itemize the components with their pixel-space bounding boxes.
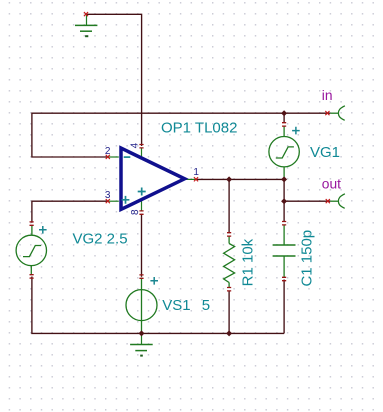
junction node output / R1 top xyxy=(226,176,232,182)
capacitor C1 xyxy=(273,225,296,277)
out macro pin connector xyxy=(330,194,345,209)
wire out net xyxy=(284,200,330,202)
VG2 source xyxy=(16,226,46,275)
svg-text:VG2 2.5: VG2 2.5 xyxy=(73,230,128,247)
terminal marks R1 bottom xyxy=(227,288,231,291)
op-amp OP1 triangle xyxy=(121,148,185,209)
pin-end mark in port xyxy=(325,111,329,115)
wire pin8 to VS1 xyxy=(141,214,143,277)
terminal marks VG2 top xyxy=(30,222,34,225)
terminal marks C1 top xyxy=(282,222,286,225)
junction ground rail / VS1 bottom xyxy=(139,330,145,336)
wire top ground to pin4 xyxy=(86,14,142,146)
terminal marks VS1 top xyxy=(139,275,143,278)
in macro pin connector xyxy=(330,106,345,121)
svg-text:4: 4 xyxy=(129,142,140,148)
terminal marks VG1 top xyxy=(282,123,286,126)
junction node in / VG1 top xyxy=(281,110,287,116)
svg-text:C1 150p: C1 150p xyxy=(298,230,315,287)
svg-text:VS1: VS1 xyxy=(162,297,190,314)
VG2 plus xyxy=(39,226,47,234)
terminal marks OP1 pin 4 xyxy=(139,145,143,148)
junction ground rail / R1 bottom xyxy=(226,330,232,336)
pin-end mark GND1 top xyxy=(84,12,88,16)
VS1 plus xyxy=(150,277,158,285)
ground bottom xyxy=(130,333,153,355)
terminal marks OP1 pin 8 xyxy=(139,211,143,214)
wire pin3 to VG2 xyxy=(32,201,108,223)
ground top xyxy=(75,14,97,36)
VS1 source xyxy=(126,278,157,334)
VG1 source xyxy=(269,127,299,180)
svg-text:OP1 TL082: OP1 TL082 xyxy=(161,120,237,137)
VG1 plus xyxy=(292,127,300,135)
svg-text:5: 5 xyxy=(202,297,210,314)
op-amp plus mark supply xyxy=(138,188,146,196)
wire R1 bottom lead xyxy=(228,291,230,334)
op-amp OP1 pin 1 stub xyxy=(184,178,197,180)
svg-text:R1 10k: R1 10k xyxy=(239,238,256,286)
terminal marks C1 bottom xyxy=(282,277,286,280)
terminal marks VG2 bottom xyxy=(30,275,34,278)
pin-end mark out port xyxy=(326,199,330,203)
svg-text:in: in xyxy=(322,88,333,103)
resistor R1 xyxy=(224,237,235,288)
op-amp OP1 pin 8 stub xyxy=(141,201,143,212)
junction node output / VG1 bottom xyxy=(281,176,287,182)
wire op-amp output xyxy=(196,178,284,180)
op-amp OP1 pin 3 stub xyxy=(108,200,119,202)
pin-end mark OP1 pin 3 xyxy=(106,199,110,203)
op-amp minus mark xyxy=(124,156,131,158)
wire C1 bottom lead xyxy=(283,280,285,334)
terminal marks R1 top xyxy=(227,233,231,236)
wire VG2 bottom + bottom rail xyxy=(32,277,284,334)
svg-text:2: 2 xyxy=(105,146,111,157)
svg-text:3: 3 xyxy=(105,190,111,201)
svg-text:8: 8 xyxy=(130,209,141,215)
pin-end mark OP1 pin 1 xyxy=(194,177,198,181)
svg-text:out: out xyxy=(322,177,341,192)
wire VG1 top lead xyxy=(283,113,285,122)
junction node out / C1 top xyxy=(281,198,287,204)
wire feedback top (in net) xyxy=(32,113,330,157)
op-amp OP1 pin 4 stub xyxy=(141,148,143,158)
pin-end mark OP1 pin 2 xyxy=(106,155,110,159)
op-amp plus mark pin3 xyxy=(122,196,130,204)
svg-text:1: 1 xyxy=(193,167,199,178)
op-amp OP1 pin 2 stub xyxy=(108,156,119,158)
wire R1 top lead xyxy=(228,179,230,233)
svg-text:VG1: VG1 xyxy=(310,144,340,161)
wire VG1 bottom to C1 top xyxy=(283,179,285,221)
